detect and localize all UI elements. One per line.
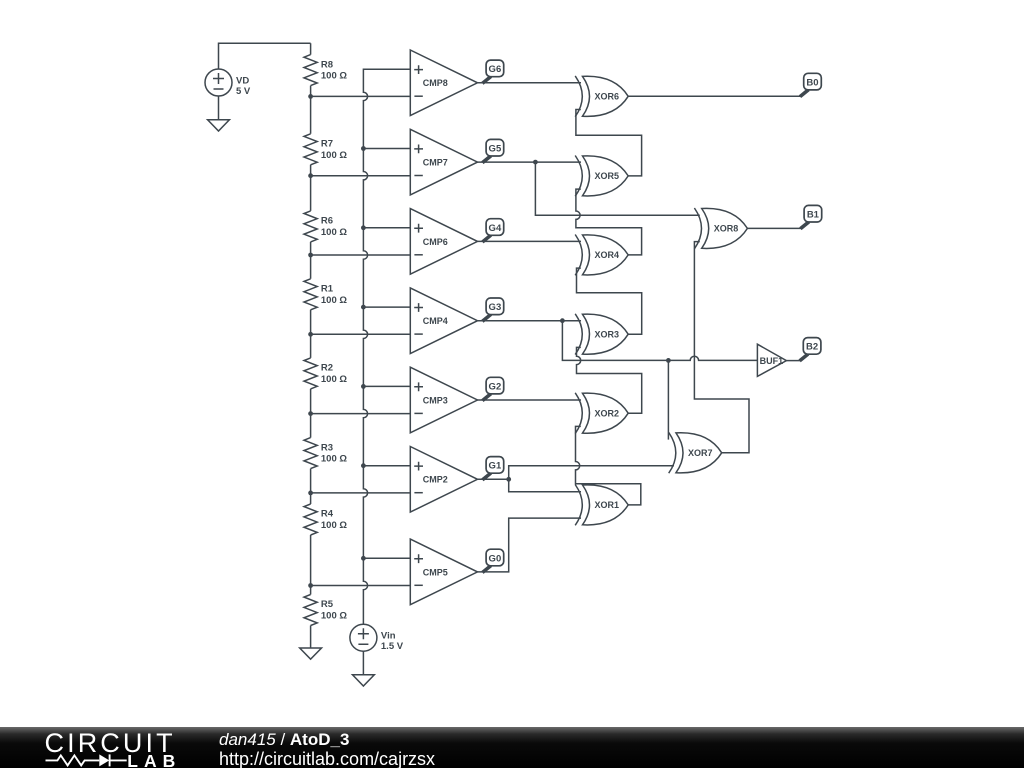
svg-text:G5: G5	[489, 144, 502, 155]
XOR gate XOR3	[575, 314, 628, 355]
node G5	[482, 139, 503, 162]
svg-text:100 Ω: 100 Ω	[321, 150, 347, 161]
wire VD negative lead to ground	[218, 96, 220, 120]
svg-text:LAB: LAB	[127, 751, 181, 768]
svg-text:CMP2: CMP2	[423, 475, 448, 485]
resistor R2 100 Ohm	[304, 358, 347, 389]
op-amp comparator CMP3	[410, 367, 477, 433]
junction G5 net branch	[533, 160, 538, 165]
voltage source VD 5 V	[205, 69, 251, 97]
svg-text:BUF1: BUF1	[760, 356, 784, 366]
wire Vin net to comparator non-inverting input (y=307.1)	[363, 306, 410, 308]
XOR gate XOR2	[575, 393, 628, 434]
junction Vin net to + input	[361, 305, 366, 310]
svg-text:G6: G6	[489, 64, 502, 75]
wire Vin net to comparator non-inverting input (y=148.5)	[363, 148, 410, 150]
junction G3 net branch	[560, 318, 565, 323]
XOR gate XOR4	[575, 235, 628, 276]
resistor R4 100 Ohm	[304, 504, 347, 535]
junction BUF1 line to XOR7 input A	[666, 358, 671, 363]
junction ladder tap 7	[308, 583, 313, 588]
svg-text:CMP6: CMP6	[423, 237, 448, 247]
wire XOR7 output to XOR8 input B	[694, 242, 749, 453]
wire XOR5 output to XOR6 input B	[576, 110, 642, 176]
wire Vin net vertical with hops over ladder taps	[363, 69, 410, 624]
op-amp comparator CMP7	[410, 129, 477, 195]
svg-text:100 Ω: 100 Ω	[321, 295, 347, 306]
wire G5 net: CMP7 output to XOR5 input A	[478, 161, 582, 163]
wire XOR4 output to XOR5 input B (hop over XOR8 input line)	[576, 189, 642, 255]
wire XOR3 output to XOR4 input B	[577, 268, 642, 334]
svg-text:VD: VD	[236, 76, 249, 87]
svg-text:B1: B1	[807, 210, 820, 221]
voltage source Vin 1.5 V	[350, 624, 404, 652]
wire G1 net branch to XOR7 input B	[509, 466, 674, 480]
node G3	[482, 298, 503, 321]
junction Vin net to + input	[361, 463, 366, 468]
svg-text:XOR6: XOR6	[595, 92, 620, 102]
svg-text:G4: G4	[489, 223, 502, 234]
op-amp comparator CMP2	[410, 447, 477, 513]
XOR gate XOR8	[694, 208, 747, 249]
svg-text:R7: R7	[321, 139, 333, 150]
wire VD positive lead to top rail	[219, 43, 311, 69]
wire Vin net to comparator non-inverting input (y=386.4)	[363, 385, 410, 387]
junction G1 net branch	[506, 477, 511, 482]
svg-text:5 V: 5 V	[236, 86, 251, 97]
wire ladder tap to comparator inverting input (y=96.4)	[311, 95, 411, 97]
CircuitLab logo wordmark	[0, 727, 350, 768]
svg-text:G0: G0	[489, 553, 502, 564]
svg-text:R1: R1	[321, 284, 334, 295]
node B0	[800, 73, 821, 96]
svg-text:XOR5: XOR5	[595, 171, 620, 181]
wire G1 net: CMP2 output to junction	[478, 478, 509, 480]
svg-text:G3: G3	[489, 302, 502, 313]
svg-text:XOR1: XOR1	[595, 500, 620, 510]
wire G1 net branch to XOR1 input A	[509, 479, 581, 491]
wire Vin net to comparator non-inverting input (y=465.7)	[363, 465, 410, 467]
node G2	[482, 377, 503, 400]
svg-text:R8: R8	[321, 59, 333, 70]
resistor R5 100 Ohm	[304, 595, 347, 626]
wire G3 net branch to BUF1 input (hop over XOR7-XOR8 link)	[562, 321, 757, 361]
junction Vin net to + input	[361, 384, 366, 389]
XOR gate XOR1	[575, 485, 628, 526]
svg-text:XOR7: XOR7	[688, 448, 713, 458]
ground (ladder bottom)	[300, 648, 322, 659]
resistor R8 100 Ohm	[304, 55, 347, 86]
svg-text:1.5 V: 1.5 V	[381, 641, 404, 652]
svg-text:CMP8: CMP8	[423, 78, 448, 88]
op-amp comparator CMP4	[410, 288, 477, 354]
node G6	[482, 60, 503, 83]
svg-text:G2: G2	[489, 381, 502, 392]
wire G5 net branch to XOR8 input A	[535, 162, 699, 215]
svg-text:CMP5: CMP5	[423, 567, 448, 577]
svg-text:R4: R4	[321, 509, 334, 520]
svg-text:G1: G1	[489, 461, 502, 472]
wire ladder tap to comparator inverting input (y=585.5)	[311, 585, 411, 587]
wire resistor-ladder vertical segments	[310, 43, 312, 648]
junction Vin net to + input	[361, 225, 366, 230]
svg-text:XOR2: XOR2	[595, 409, 620, 419]
svg-text:100 Ω: 100 Ω	[321, 611, 347, 622]
wire ladder tap to comparator inverting input (y=492.9)	[311, 492, 411, 494]
wire B2 net: BUF1 output to flag	[786, 360, 800, 362]
svg-text:CMP7: CMP7	[423, 158, 448, 168]
resistor R1 100 Ohm	[304, 279, 347, 310]
svg-text:100 Ω: 100 Ω	[321, 227, 347, 238]
resistor R6 100 Ohm	[304, 211, 347, 242]
op-amp comparator CMP8	[410, 50, 477, 116]
svg-text:100 Ω: 100 Ω	[321, 454, 347, 465]
resistor R7 100 Ohm	[304, 134, 347, 165]
junction ladder tap 6	[308, 491, 313, 496]
svg-text:100 Ω: 100 Ω	[321, 520, 347, 531]
svg-text:R2: R2	[321, 363, 333, 374]
wire B1 net: XOR8 output to flag	[747, 227, 801, 229]
wire Vin negative lead to ground	[362, 651, 364, 675]
op-amp comparator CMP6	[410, 209, 477, 275]
svg-text:Vin: Vin	[381, 631, 396, 642]
junction ladder tap 5	[308, 411, 313, 416]
svg-text:B2: B2	[806, 342, 818, 353]
node G4	[482, 219, 503, 242]
svg-text:R3: R3	[321, 442, 333, 453]
node B1	[800, 205, 821, 228]
logo resistor-diode glyph	[46, 755, 100, 765]
svg-text:R6: R6	[321, 216, 333, 227]
junction ladder tap 2	[308, 173, 313, 178]
node G0	[482, 549, 503, 572]
svg-text:XOR4: XOR4	[595, 250, 620, 260]
footer title text: dan415 / AtoD_3	[219, 730, 349, 750]
svg-text:100 Ω: 100 Ω	[321, 374, 347, 385]
svg-text:R5: R5	[321, 599, 334, 610]
wire G6 net: CMP8 output to XOR6 input A	[478, 82, 582, 84]
ground (VD)	[208, 120, 230, 131]
junction ladder tap 1	[308, 94, 313, 99]
wire G3 net: CMP4 output to XOR3 input A	[478, 320, 582, 322]
wire G4 net: CMP6 output to XOR4 input A	[478, 240, 582, 242]
XOR gate XOR7	[669, 432, 722, 473]
svg-text:B0: B0	[806, 77, 818, 88]
svg-text:CMP3: CMP3	[423, 395, 448, 405]
resistor R3 100 Ohm	[304, 438, 347, 469]
wire G0 net: CMP5 output to XOR1 input B	[478, 518, 582, 572]
node B2	[800, 338, 821, 361]
wire ladder tap to comparator inverting input (y=255.0)	[311, 254, 411, 256]
XOR gate XOR6	[575, 76, 628, 117]
junction Vin net to + input	[361, 556, 366, 561]
wire G2 net: CMP3 output to XOR2 input A	[478, 399, 582, 401]
svg-text:CMP4: CMP4	[423, 316, 448, 326]
wire XOR2 output to XOR3 input B (hop over BUF1 line)	[577, 347, 642, 413]
wire Vin net to comparator non-inverting input (y=227.8)	[363, 227, 410, 229]
node G1	[482, 457, 503, 480]
junction ladder tap 4	[308, 332, 313, 337]
XOR gate XOR5	[575, 156, 628, 197]
wire ladder tap to comparator inverting input (y=334.3)	[311, 333, 411, 335]
wire ladder tap to comparator inverting input (y=413.6)	[311, 413, 411, 415]
op-amp comparator CMP5	[410, 539, 477, 605]
junction Vin net to + input	[361, 146, 366, 151]
ground (Vin)	[353, 675, 375, 686]
svg-text:100 Ω: 100 Ω	[321, 71, 347, 82]
footer url text	[219, 749, 435, 770]
wire B0 net: XOR6 output to flag	[628, 95, 800, 97]
wire XOR1 output to XOR2 input B (hop over G1-XOR7 line)	[576, 426, 641, 505]
wire ladder tap to comparator inverting input (y=175.7)	[311, 175, 411, 177]
svg-text:XOR3: XOR3	[595, 330, 620, 340]
wire branch down to XOR7 input A	[667, 360, 669, 439]
junction ladder tap 3	[308, 253, 313, 258]
buffer BUF1	[757, 344, 786, 376]
svg-text:XOR8: XOR8	[714, 224, 739, 234]
wire Vin net to comparator non-inverting input (y=558.3)	[363, 557, 410, 559]
